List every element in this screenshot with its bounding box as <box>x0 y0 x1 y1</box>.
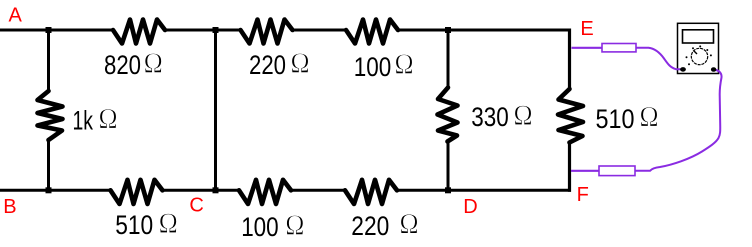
value label 330 ohm symbol <box>515 106 531 125</box>
resistor R 100 ohm zigzag (top) <box>346 20 398 44</box>
probe body on F lead <box>599 166 635 176</box>
value label 100 top ohm symbol <box>396 54 412 73</box>
svg-text:220: 220 <box>351 211 389 241</box>
junction dot at node C <box>213 187 219 193</box>
wire branch E upper lead (E corner to R 510) <box>568 29 571 90</box>
junction dot at node D <box>445 187 451 193</box>
wire bottom bus: 220 to corner F (through node D) <box>396 189 571 192</box>
svg-text:820: 820 <box>104 50 141 80</box>
svg-text:100: 100 <box>354 52 392 82</box>
svg-text:1k: 1k <box>73 105 94 135</box>
junction dot at node D column top <box>445 27 451 33</box>
value label 1k ohm symbol <box>100 109 116 128</box>
multimeter left terminal <box>680 67 686 72</box>
resistor R 220 ohm zigzag (top) <box>241 20 293 44</box>
svg-text:100: 100 <box>241 212 279 242</box>
wire top bus: 820 to 220 (through top of node C branch) <box>165 29 242 32</box>
wire branch node D lower lead (R 330 to D) <box>447 141 450 192</box>
multimeter dial pointer <box>694 51 698 55</box>
resistor R 220 ohm zigzag (bottom right) <box>345 180 397 204</box>
resistor R 100 ohm zigzag (bottom middle) <box>239 180 291 204</box>
resistor R 1k ohm zigzag (left vertical) <box>38 91 63 140</box>
wire branch node D upper lead (to R 330) <box>447 29 450 89</box>
value label 820 ohm symbol <box>145 53 161 72</box>
multimeter display <box>683 30 714 43</box>
wire purple test lead from E <box>572 47 603 49</box>
wire top bus: 220 to 100 <box>292 29 348 32</box>
svg-text:510: 510 <box>115 210 153 240</box>
wire purple test lead from F <box>571 170 599 172</box>
junction dot at node C column top <box>213 27 219 33</box>
wire bottom bus: node B to resistor 510 <box>0 189 112 192</box>
wire branch F lower lead (R 510 to F corner) <box>568 142 571 192</box>
wire purple E lead to multimeter left terminal <box>636 48 681 70</box>
value label 510 bottom ohm symbol <box>160 214 176 233</box>
resistor R 330 ohm zigzag (vertical at node D) <box>438 88 458 142</box>
wire bottom bus: 100 to 220 <box>290 189 346 192</box>
svg-text:330: 330 <box>471 102 509 132</box>
probe body on E lead <box>602 44 636 52</box>
svg-text:510: 510 <box>596 104 635 134</box>
junction dot at node B <box>46 187 52 193</box>
svg-text:220: 220 <box>249 50 286 80</box>
wire purple F lead to multimeter right terminal <box>635 70 722 171</box>
resistor R 510 ohm zigzag (bottom left) <box>111 180 163 204</box>
wire left branch lower lead (R 1k to B) <box>47 140 50 192</box>
wire branch node C vertical <box>214 29 217 192</box>
value label 100 bottom ohm symbol <box>287 215 303 234</box>
wire left branch upper lead (A to R 1k) <box>47 29 50 92</box>
value label 220 bottom ohm symbol <box>401 214 417 233</box>
svg-text:F: F <box>577 184 589 206</box>
wire bottom bus: 510 to 100 (through node C) <box>162 189 241 192</box>
wire top bus: node A to resistor 820 <box>0 29 114 32</box>
value label 220 top ohm symbol <box>292 53 308 72</box>
value label 510 right ohm symbol <box>641 107 657 126</box>
svg-text:B: B <box>3 196 16 218</box>
wire top bus: 100 to corner E <box>397 29 571 32</box>
svg-text:A: A <box>9 5 23 27</box>
svg-text:D: D <box>463 196 477 218</box>
junction dot at node A column top <box>46 27 52 33</box>
multimeter dial knob <box>691 48 707 64</box>
resistor R 510 ohm zigzag (vertical between E and F) <box>558 89 583 143</box>
svg-text:E: E <box>580 18 593 40</box>
resistor R 820 ohm zigzag (top) <box>113 20 165 44</box>
svg-text:C: C <box>189 195 203 217</box>
multimeter dial tick dots <box>686 45 712 65</box>
multimeter U1 body <box>678 23 719 73</box>
multimeter right terminal <box>711 67 716 72</box>
